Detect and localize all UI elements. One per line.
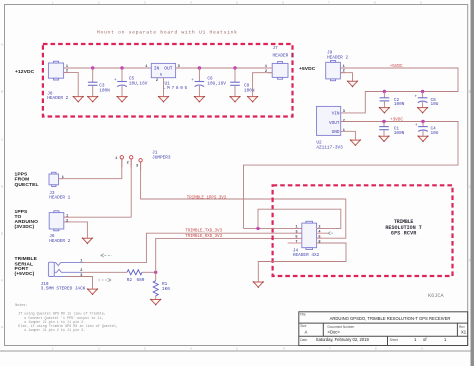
direction arrow J4 pin4 [328,232,333,235]
svg-text:TRIMBLE: TRIMBLE [15,256,38,262]
svg-text:100N: 100N [99,89,110,94]
svg-text:Title: Title [300,313,306,317]
wire net +3VDC from VOUT [244,122,459,229]
node junction C9 [233,66,236,69]
ground [73,96,84,103]
svg-text:J7: J7 [273,46,279,51]
wire loop pin1 to pin2 [258,209,341,228]
svg-text:HEADER 1: HEADER 1 [49,195,70,200]
svg-text:F: F [469,259,471,263]
svg-text:680: 680 [137,278,145,283]
svg-text:IN: IN [154,65,160,71]
svg-text:1: 1 [265,65,267,69]
svg-text:HEADER 2: HEADER 2 [47,96,68,101]
connector J7 HEADER 2 [265,46,294,79]
ground [87,288,98,295]
svg-text:3: 3 [343,110,345,114]
wire J7 pin2 to gnd [253,73,273,97]
svg-text:AZ1117-3V3: AZ1117-3V3 [316,146,343,151]
svg-text:OUT: OUT [164,65,173,71]
svg-text:3: 3 [136,164,138,168]
dashed box: mount on separate board [43,44,293,117]
svg-text:TRIMBLE_1PPS_3V3: TRIMBLE_1PPS_3V3 [187,196,227,200]
wire net +5VDC to VIN [340,68,458,113]
svg-text:5: 5 [295,236,297,240]
wire net TRIMBLE_TXD_3V3 jack tip to J4 pin3 [82,233,302,262]
capacitor C4 10U [415,122,439,136]
svg-text:6: 6 [318,236,320,240]
ground [82,238,93,245]
svg-text:QUECTEL: QUECTEL [15,182,39,188]
svg-text:JUMPER3: JUMPER3 [152,155,171,160]
svg-text:A: A [305,330,308,335]
svg-text:(3V3DC): (3V3DC) [15,224,35,230]
node junction C1 [382,120,385,123]
connector J10 3.5mm stereo jack [41,260,86,292]
ground [379,107,390,114]
connector J8 HEADER 2 [47,61,68,101]
svg-text:10U: 10U [431,102,439,107]
svg-text:2: 2 [265,70,267,74]
ground [253,281,264,288]
svg-text:+: + [191,78,194,83]
svg-text:+: + [415,123,418,128]
svg-text:2: 2 [156,79,158,83]
svg-text:+: + [415,94,418,99]
title block [299,312,468,346]
svg-text:Rev: Rev [459,325,465,329]
node junction C3 [91,66,94,69]
svg-text:7: 7 [295,240,297,244]
ground [87,96,98,103]
ground [350,139,361,146]
node junction C5 [120,66,123,69]
svg-text:K6JCA: K6JCA [428,293,444,299]
dashed box: TRIMBLE RESOLUTION T GPS RCVR [273,185,453,276]
svg-text:FROM: FROM [15,177,30,183]
wire J1 pin2 to J6 [64,159,131,217]
node junction C2 [383,90,386,93]
ground [150,299,161,306]
svg-text:10U: 10U [431,131,439,136]
svg-text:(+5VDC): (+5VDC) [15,271,35,277]
ground [379,136,390,143]
svg-text:1: 1 [62,176,64,180]
wire J6 pin2 to gnd [64,222,88,238]
wire +3VDC row1 into J4 pin1 [244,227,302,229]
capacitor C5 10U,16V [114,68,148,96]
svg-text:1: 1 [66,215,68,219]
wire net TRIMBLE_RXD_3V3 node to J4 pin5 [156,238,302,272]
svg-text:Date:: Date: [300,338,308,342]
svg-text:1: 1 [115,157,117,161]
svg-text:HEADER 2: HEADER 2 [273,53,294,58]
node junction row1 loop [256,227,259,230]
svg-text:+5VDC: +5VDC [390,64,403,69]
svg-text:GPS RCVR: GPS RCVR [391,231,416,237]
wire J8 pin2 to gnd [64,73,79,97]
svg-text:Document Number: Document Number [328,325,356,329]
svg-text:X1: X1 [461,329,467,334]
svg-text:LM7805: LM7805 [163,86,188,91]
svg-text:Size: Size [300,324,306,328]
label 1PPS TO ARDUINO (3V3DC) [15,209,39,230]
svg-text:1: 1 [343,129,345,133]
svg-text:ARDUINO GPSDO, TRIMBLE RESOLUT: ARDUINO GPSDO, TRIMBLE RESOLUTION-T GPS … [330,316,451,321]
node junction C4 [421,120,424,123]
capacitor C2 100N [380,92,405,108]
capacitor C1 100N [379,122,404,136]
ground [194,96,205,103]
ground [158,96,169,103]
wire U1 gnd [163,78,165,97]
svg-text:2: 2 [66,219,68,223]
ground [347,81,358,88]
wire jack ring to R2 [82,271,127,273]
svg-text:Mount on separate board with U: Mount on separate board with U1 Heatsink [97,30,237,36]
connector J6 HEADER 2 [49,211,70,244]
svg-text:+5VDC: +5VDC [299,66,316,72]
ground [418,136,429,143]
capacitor C9 100N [230,68,255,96]
wire +5V rail after U1 [176,67,273,69]
svg-text:B: B [1,90,3,94]
svg-text:100N: 100N [394,131,405,136]
regulator U1 LM7805 [145,63,187,91]
svg-text:1: 1 [295,226,297,230]
svg-text:2: 2 [318,226,320,230]
svg-text:10U,16V: 10U,16V [207,82,226,87]
wire R2 to node [142,271,156,273]
capacitor C3 100N [88,68,110,96]
svg-text:HEADER 2: HEADER 2 [327,56,348,61]
svg-text:VOUT: VOUT [329,121,340,126]
capacitor C6 10U,16V [191,68,226,96]
svg-text:10U,16V: 10U,16V [129,82,148,87]
wire net TRIMBLE_1PPS_3V3 from J1 pin3 to J4 pin6 [141,162,346,238]
svg-text:2: 2 [127,161,129,165]
svg-text:F: F [1,279,3,283]
svg-text:Notes:: Notes: [15,304,27,308]
wire jack sleeve to gnd [66,277,93,289]
node junction C6 [198,66,201,69]
wire +12V rail [64,67,152,69]
node junction RXD/R1 [154,271,157,274]
svg-text:1K0: 1K0 [162,287,170,292]
svg-text:GND: GND [332,130,340,135]
svg-text:100N: 100N [394,102,405,107]
svg-text:1PPS: 1PPS [15,209,29,215]
svg-text:+3VDC: +3VDC [390,117,403,122]
svg-text:B: B [469,90,471,94]
label 1PPS FROM QUECTEL [15,171,39,188]
svg-text:E: E [1,232,3,236]
ground [230,96,241,103]
svg-text:TRIMBLE_TXD_3V3: TRIMBLE_TXD_3V3 [185,230,222,234]
direction arrow ring [98,278,111,282]
svg-text:HEADER 2: HEADER 2 [49,239,70,244]
node junction C8 [421,90,424,93]
notes block [15,304,118,333]
svg-text:HEADER 4X2: HEADER 4X2 [293,253,320,258]
svg-text:o Jumper J1 pin 2 to J1 pin 3: o Jumper J1 pin 2 to J1 pin 3. [24,328,85,333]
svg-text:3: 3 [295,231,297,235]
svg-text:1: 1 [145,65,147,69]
label TRIMBLE SERIAL PORT (+5VDC) [15,256,38,277]
svg-text:+12VDC: +12VDC [15,69,35,75]
connector J4 HEADER 4X2 [288,221,328,258]
svg-text:R2: R2 [127,278,133,283]
ground [247,96,258,103]
connector J9 HEADER 2 [326,50,349,80]
ground [117,96,128,103]
svg-text:Saturday, February 02, 2019: Saturday, February 02, 2019 [316,337,370,342]
ground [417,107,428,114]
svg-text:<Doc>: <Doc> [328,329,341,334]
svg-text:100N: 100N [244,89,255,94]
regulator U2 AZ1117-3V3 [316,106,345,150]
wire J4 pin8 to gnd [258,243,346,282]
svg-text:VIN: VIN [332,111,340,116]
wire U2 gnd [341,131,356,140]
direction arrow tip [101,254,112,258]
svg-text:8: 8 [318,240,320,244]
svg-text:+: + [114,78,117,83]
wire J1 pin1 to J3 [59,159,122,178]
svg-text:1PPS: 1PPS [15,171,29,177]
jumper J1 JUMPER3 [115,150,171,168]
wire J9 pin2 to gnd [340,73,352,81]
resistor R1 1K0 [153,272,170,299]
svg-text:Sheet: Sheet [390,338,398,342]
svg-text:A: A [1,43,3,47]
resistor R2 680 [127,270,145,283]
svg-text:TRIMBLE_RXD_3V3: TRIMBLE_RXD_3V3 [185,235,222,239]
capacitor C8 10U [415,92,439,108]
svg-text:3.5MM STEREO JACK: 3.5MM STEREO JACK [41,286,86,291]
connector J3 HEADER 1 [49,172,71,200]
